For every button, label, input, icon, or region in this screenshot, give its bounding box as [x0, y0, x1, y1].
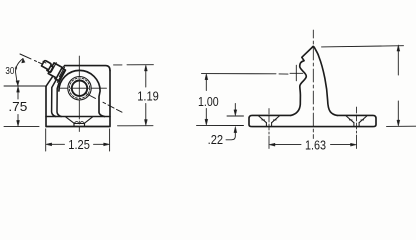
svg-text:30°: 30°: [5, 66, 17, 77]
neck: [47, 65, 53, 72]
svg-text:.22: .22: [208, 133, 224, 147]
arrowhead bottom of arc: [16, 81, 19, 86]
grease passage axis (lower-right dash-dot): [86, 94, 122, 113]
pad line 2: [52, 76, 59, 116]
base (bottom plate, front view): [46, 71, 110, 127]
centerline vertical through base countersink: [78, 121, 80, 132]
.75 bottom extension line: [4, 126, 39, 128]
base countersunk hole (hidden lines): [66, 117, 93, 126]
1.19 dimension line with arrows: [145, 71, 147, 87]
base bottom extension line (left): [197, 124, 244, 126]
flange inner line: [57, 71, 64, 82]
right hole centerline: [356, 107, 358, 149]
hex body: [48, 63, 62, 78]
arrowhead top of arc: [22, 59, 25, 64]
.22 top extension line: [227, 115, 244, 117]
hex facet lines: [59, 67, 64, 76]
1.63 dimension line with arrows: [275, 144, 301, 146]
1.19 top extension line: [114, 64, 154, 66]
1.00 top extension line: [202, 73, 289, 76]
1.00 dimension line with arrows: [205, 80, 207, 91]
svg-text:1.63: 1.63: [305, 138, 326, 152]
left hole centerline: [268, 109, 270, 149]
flange: [55, 68, 66, 82]
.22 lower arrow (pointing up from below) + leader: [226, 133, 235, 140]
hole: thread circle (dashed): [69, 78, 89, 98]
grease fitting Z1 (tilted ~28 deg, pointing up-left): [42, 61, 66, 83]
upright profile, apex cap and right side: [312, 46, 337, 115]
svg-text:1.19: 1.19: [137, 90, 159, 104]
1.25 extension lines: [45, 129, 47, 151]
svg-text:1.25: 1.25: [68, 138, 90, 152]
.75 top extension line: [4, 85, 46, 87]
pad edge A (angled, outer): [46, 75, 54, 86]
base top line: [46, 116, 110, 118]
block top edge with rounded corner: [65, 66, 111, 71]
svg-text:.75: .75: [8, 100, 27, 114]
main vertical centerline: [312, 30, 314, 139]
.22 upper arrow (pointing down from above): [234, 104, 236, 111]
overall height dimension line (number off-page): [397, 52, 399, 76]
wire: grease passage axis (upper-left dash-dot): [20, 54, 31, 59]
hole: bore circle: [72, 81, 87, 96]
.75 dimension line with arrows: [17, 93, 19, 100]
upright profile (hook-shaped flange), left side: [291, 46, 313, 115]
ball tip: [42, 61, 52, 70]
pad line 3: [57, 77, 61, 117]
1.19 bottom extension line: [118, 125, 154, 127]
centerline horizontal through hole: [60, 87, 107, 89]
left countersunk hole (base, side view): [259, 116, 280, 126]
ball flat tip line: [43, 61, 46, 63]
overall height: bottom extension line (right): [387, 125, 416, 127]
1.25 dimension line with arrows: [52, 143, 65, 145]
overall height: top extension line from peak: [322, 46, 404, 47]
flange-to-top-edge junction: [62, 66, 65, 68]
boss arc (dome around hole): [59, 70, 105, 116]
right countersunk hole (base, side view): [346, 116, 367, 126]
hole: outer counterbore circle: [68, 77, 91, 100]
base plate (side view): [249, 115, 376, 126]
30 deg angular dimension arc: [16, 59, 23, 86]
svg-text:1.00: 1.00: [198, 95, 219, 109]
centerline vertical through hole: [78, 56, 80, 119]
crosshair at grease hole location: [290, 65, 303, 81]
